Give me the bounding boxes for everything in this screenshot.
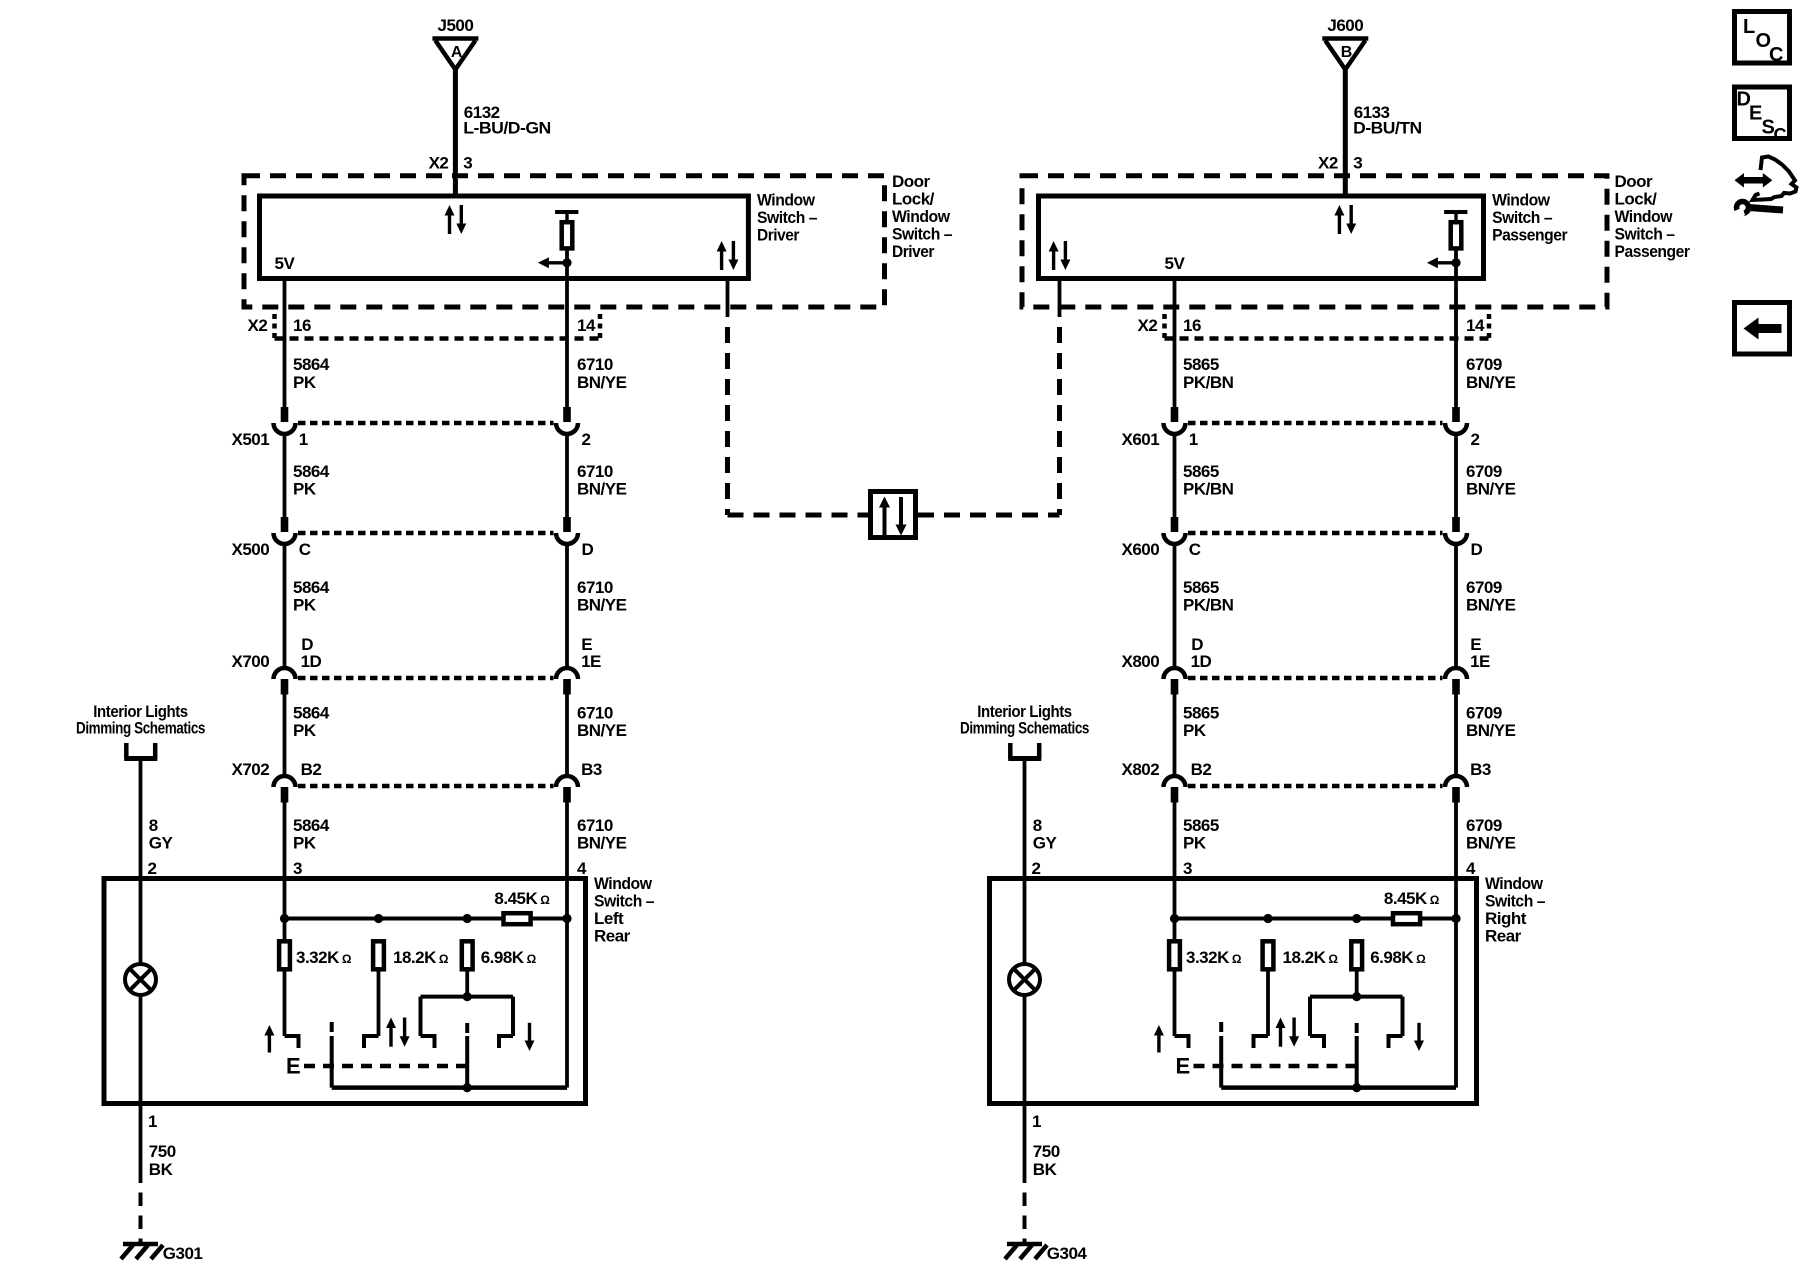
svg-text:BN/YE: BN/YE <box>1466 480 1516 499</box>
svg-text:Passenger: Passenger <box>1615 242 1691 261</box>
svg-text:Passenger: Passenger <box>1492 226 1568 245</box>
svg-text:C: C <box>1774 125 1787 145</box>
svg-text:X700: X700 <box>231 652 269 671</box>
svg-text:5865: 5865 <box>1183 704 1219 723</box>
svg-text:PK/BN: PK/BN <box>1183 373 1234 392</box>
svg-text:X600: X600 <box>1121 540 1159 559</box>
svg-text:BK: BK <box>1033 1160 1058 1179</box>
svg-text:BN/YE: BN/YE <box>1466 373 1516 392</box>
svg-text:6709: 6709 <box>1466 704 1502 723</box>
svg-text:B3: B3 <box>581 760 602 779</box>
svg-text:Dimming Schematics: Dimming Schematics <box>76 719 205 738</box>
svg-text:Lock/: Lock/ <box>892 190 935 209</box>
svg-text:X2: X2 <box>248 316 268 335</box>
svg-text:Window: Window <box>1485 874 1544 893</box>
svg-text:GY: GY <box>149 834 174 853</box>
svg-text:Switch –: Switch – <box>1485 892 1545 911</box>
svg-text:Switch –: Switch – <box>594 892 654 911</box>
svg-text:G301: G301 <box>163 1244 203 1263</box>
svg-text:C: C <box>299 540 311 559</box>
svg-text:5864: 5864 <box>293 816 330 835</box>
svg-text:1: 1 <box>1032 1112 1041 1131</box>
svg-text:Window: Window <box>892 207 951 226</box>
svg-text:PK: PK <box>293 596 317 615</box>
svg-text:D: D <box>582 540 594 559</box>
svg-text:X501: X501 <box>231 430 269 449</box>
svg-text:GY: GY <box>1033 834 1058 853</box>
svg-text:3: 3 <box>293 859 302 878</box>
svg-text:BN/YE: BN/YE <box>1466 834 1516 853</box>
svg-text:X702: X702 <box>231 760 269 779</box>
svg-text:5864: 5864 <box>293 704 330 723</box>
svg-text:BN/YE: BN/YE <box>577 373 627 392</box>
svg-text:PK: PK <box>293 834 317 853</box>
svg-text:Switch –: Switch – <box>892 225 952 244</box>
svg-text:Switch –: Switch – <box>1492 208 1552 227</box>
svg-text:5865: 5865 <box>1183 462 1219 481</box>
svg-text:1D: 1D <box>1191 652 1212 671</box>
svg-text:Window: Window <box>594 874 653 893</box>
svg-text:Window: Window <box>1492 191 1551 210</box>
svg-text:2: 2 <box>582 430 591 449</box>
svg-text:6709: 6709 <box>1466 578 1502 597</box>
svg-text:E: E <box>1749 103 1762 125</box>
svg-text:6710: 6710 <box>577 462 613 481</box>
svg-text:6709: 6709 <box>1466 816 1502 835</box>
svg-text:BN/YE: BN/YE <box>1466 721 1516 740</box>
svg-text:L: L <box>1743 16 1755 38</box>
svg-text:Left: Left <box>594 909 624 928</box>
svg-text:2: 2 <box>1032 859 1041 878</box>
svg-text:BN/YE: BN/YE <box>577 596 627 615</box>
svg-text:BN/YE: BN/YE <box>577 480 627 499</box>
svg-text:1D: 1D <box>301 652 322 671</box>
svg-text:6710: 6710 <box>577 578 613 597</box>
svg-text:PK: PK <box>1183 721 1207 740</box>
svg-text:Right: Right <box>1485 909 1527 928</box>
svg-text:B3: B3 <box>1470 760 1491 779</box>
svg-text:PK: PK <box>293 373 317 392</box>
svg-text:PK/BN: PK/BN <box>1183 596 1234 615</box>
svg-text:6709: 6709 <box>1466 355 1502 374</box>
svg-text:D-BU/TN: D-BU/TN <box>1353 119 1422 138</box>
svg-text:Switch –: Switch – <box>1615 225 1675 244</box>
svg-text:3: 3 <box>1353 154 1362 173</box>
svg-text:X2: X2 <box>1138 316 1158 335</box>
svg-text:Switch –: Switch – <box>757 208 817 227</box>
svg-text:L-BU/D-GN: L-BU/D-GN <box>463 119 551 138</box>
svg-text:BN/YE: BN/YE <box>577 721 627 740</box>
svg-text:750: 750 <box>149 1142 176 1161</box>
svg-text:5865: 5865 <box>1183 816 1219 835</box>
svg-text:1: 1 <box>1189 430 1198 449</box>
svg-text:Dimming Schematics: Dimming Schematics <box>960 719 1089 738</box>
svg-text:J600: J600 <box>1327 16 1363 35</box>
svg-text:B2: B2 <box>1191 760 1212 779</box>
svg-text:X601: X601 <box>1121 430 1159 449</box>
svg-text:3: 3 <box>463 154 472 173</box>
svg-text:BK: BK <box>149 1160 174 1179</box>
svg-text:PK: PK <box>1183 834 1207 853</box>
svg-text:A: A <box>451 44 463 61</box>
svg-text:X2: X2 <box>429 154 449 173</box>
svg-text:B2: B2 <box>301 760 322 779</box>
svg-text:16: 16 <box>293 316 311 335</box>
svg-text:B: B <box>1341 44 1352 61</box>
svg-text:J500: J500 <box>438 16 474 35</box>
svg-text:Door: Door <box>892 172 931 191</box>
svg-text:D: D <box>1471 540 1483 559</box>
svg-text:5V: 5V <box>275 254 296 273</box>
svg-text:5865: 5865 <box>1183 355 1219 374</box>
svg-text:Driver: Driver <box>757 226 800 245</box>
svg-text:5864: 5864 <box>293 578 330 597</box>
svg-text:Rear: Rear <box>594 927 631 946</box>
svg-text:2: 2 <box>1471 430 1480 449</box>
svg-text:1E: 1E <box>1470 652 1490 671</box>
svg-text:4: 4 <box>577 859 587 878</box>
svg-text:C: C <box>1769 44 1783 66</box>
svg-text:PK/BN: PK/BN <box>1183 480 1234 499</box>
svg-text:6709: 6709 <box>1466 462 1502 481</box>
svg-text:8: 8 <box>149 816 158 835</box>
svg-text:X500: X500 <box>231 540 269 559</box>
svg-text:Window: Window <box>757 191 816 210</box>
svg-text:8: 8 <box>1033 816 1042 835</box>
svg-text:BN/YE: BN/YE <box>577 834 627 853</box>
svg-text:1E: 1E <box>581 652 601 671</box>
svg-text:X800: X800 <box>1121 652 1159 671</box>
svg-text:5864: 5864 <box>293 355 330 374</box>
svg-text:Driver: Driver <box>892 242 935 261</box>
svg-text:6710: 6710 <box>577 816 613 835</box>
svg-text:C: C <box>1189 540 1201 559</box>
svg-text:E: E <box>1176 1054 1190 1079</box>
svg-text:5V: 5V <box>1165 254 1186 273</box>
svg-text:Window: Window <box>1615 207 1674 226</box>
svg-text:E: E <box>286 1054 300 1079</box>
svg-text:X802: X802 <box>1121 760 1159 779</box>
svg-text:1: 1 <box>299 430 308 449</box>
svg-text:16: 16 <box>1183 316 1201 335</box>
svg-text:X2: X2 <box>1318 154 1338 173</box>
svg-text:2: 2 <box>148 859 157 878</box>
svg-text:1: 1 <box>148 1112 157 1131</box>
svg-text:4: 4 <box>1466 859 1476 878</box>
svg-text:BN/YE: BN/YE <box>1466 596 1516 615</box>
svg-text:5865: 5865 <box>1183 578 1219 597</box>
svg-text:6710: 6710 <box>577 704 613 723</box>
svg-text:PK: PK <box>293 480 317 499</box>
svg-text:14: 14 <box>1466 316 1485 335</box>
svg-text:6710: 6710 <box>577 355 613 374</box>
svg-text:Lock/: Lock/ <box>1615 190 1658 209</box>
svg-text:Door: Door <box>1615 172 1654 191</box>
svg-text:Rear: Rear <box>1485 927 1522 946</box>
svg-text:750: 750 <box>1033 1142 1060 1161</box>
svg-text:5864: 5864 <box>293 462 330 481</box>
svg-text:3: 3 <box>1183 859 1192 878</box>
svg-text:G304: G304 <box>1047 1244 1088 1263</box>
svg-text:14: 14 <box>577 316 596 335</box>
svg-text:PK: PK <box>293 721 317 740</box>
